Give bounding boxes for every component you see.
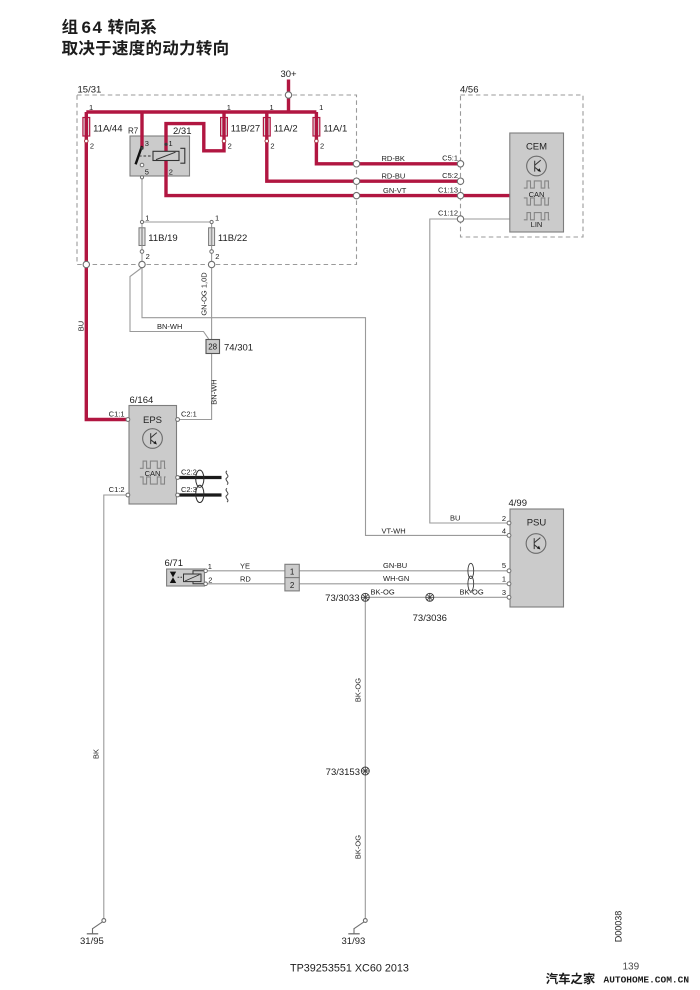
wire red relay pin3 feed [140, 112, 143, 148]
svg-text:11B/22: 11B/22 [218, 233, 247, 244]
wire BN-WH 11B/19 to splice 74/301 [130, 268, 209, 340]
node 30+ connector circle [285, 92, 291, 98]
svg-text:30+: 30+ [280, 69, 297, 80]
svg-text:1: 1 [270, 103, 274, 112]
svg-text:1: 1 [145, 214, 149, 223]
EPS pin C2:2 [176, 467, 197, 479]
svg-text:AUTOHOME.COM.CN: AUTOHOME.COM.CN [604, 975, 690, 986]
EPS pin C2:3 [176, 485, 197, 497]
svg-text:C1:2: C1:2 [109, 485, 125, 494]
svg-text:WH-GN: WH-GN [383, 574, 409, 583]
fuse 11A/44 [83, 103, 123, 151]
footer watermark autohome [546, 973, 689, 986]
fuse 11A/1 [313, 103, 347, 151]
wire YE 6/71 pin1 to inline connector [207, 561, 285, 571]
ECU EPS 6/164 [129, 395, 177, 504]
wire red bus 30+ feed [86, 110, 316, 113]
wire CAN twisted pair EPS C2:3 [180, 488, 228, 502]
svg-text:73/3036: 73/3036 [413, 613, 447, 624]
title line 2 [62, 40, 228, 56]
svg-text:1: 1 [319, 103, 323, 112]
svg-text:RD: RD [240, 574, 251, 583]
wire BN-WH splice 74/301 to EPS C2:1 [179, 354, 219, 420]
svg-text:BK: BK [92, 749, 101, 759]
EPS pin C1:1 [109, 410, 130, 422]
svg-text:5: 5 [145, 167, 149, 176]
wire red RD-BU fuse 11A/2 to C5:2 [267, 141, 461, 181]
ground 31/93 [342, 919, 368, 947]
fuse 11B/22 [209, 228, 248, 261]
PSU pin 4 [502, 526, 511, 537]
PSU pin 2 [502, 514, 511, 525]
svg-text:2: 2 [228, 142, 232, 151]
svg-text:BU: BU [450, 514, 460, 523]
fuse 11A/2 [263, 103, 297, 151]
PSU pin 3 [502, 588, 511, 599]
svg-text:C2:1: C2:1 [181, 410, 197, 419]
pin C1:13 [438, 185, 464, 199]
twisted pair symbol EPS [196, 470, 204, 502]
node 11B/22 through 15/31 border [208, 261, 214, 267]
wire GN-BU connector to PSU pin5 [299, 561, 508, 571]
dashed box 15/31 fuse/relay box [77, 85, 357, 265]
svg-text:11A/1: 11A/1 [323, 124, 347, 135]
svg-text:11B/19: 11B/19 [148, 233, 177, 244]
svg-text:2: 2 [270, 142, 274, 151]
svg-text:BK-OG: BK-OG [354, 678, 363, 702]
svg-text:BN-WH: BN-WH [157, 322, 182, 331]
ECU PSU 4/99 [509, 498, 564, 607]
svg-text:1: 1 [215, 214, 219, 223]
PSU pin 1 [502, 575, 511, 586]
wire WH-GN connector to PSU pin1 [299, 574, 508, 584]
wire BK EPS C1:2 to ground 31/95 [92, 495, 127, 919]
wire BK-OG splice 73/3033 down to ground 31/93 [354, 597, 366, 918]
wire VT-WH 11B/19 to PSU pin4 [142, 268, 508, 536]
svg-text:11A/44: 11A/44 [93, 124, 122, 135]
svg-text:6/164: 6/164 [130, 395, 154, 406]
wire red GN-VT relay pin2 to CEM C1:13 [166, 159, 512, 196]
PSU pin 5 [502, 561, 511, 572]
svg-text:1: 1 [290, 567, 295, 576]
wire fuse 11B/19 tail to connector circle [141, 246, 143, 265]
svg-text:2: 2 [208, 575, 212, 584]
splice 73/3153 [326, 767, 370, 778]
wire C1:12 CEM to PSU pin2 (BU) [430, 219, 512, 523]
svg-text:TP39253551 XC60 2013: TP39253551 XC60 2013 [290, 963, 409, 975]
svg-text:BK-OG: BK-OG [371, 588, 395, 597]
dashed box 4/56 CEM enclosure [460, 85, 583, 238]
wire BK-OG splice 73/3033 to PSU pin3 [365, 588, 508, 598]
svg-text:1: 1 [208, 562, 212, 571]
svg-text:2/31: 2/31 [173, 126, 192, 137]
fuse 11B/27 [221, 103, 261, 151]
svg-text:74/301: 74/301 [224, 343, 253, 354]
pin C5:2 [442, 171, 464, 185]
svg-text:2: 2 [290, 581, 295, 590]
svg-text:2: 2 [215, 252, 219, 261]
svg-text:LIN: LIN [531, 220, 543, 229]
svg-text:2: 2 [169, 167, 173, 176]
node GN-VT 15/31 border [353, 192, 359, 198]
svg-text:1: 1 [169, 139, 173, 148]
footer diagram id D00038 [614, 911, 624, 943]
wire junction row pin1 rail to fuses 11B/19 11B/22 [140, 214, 219, 228]
svg-text:31/93: 31/93 [342, 936, 366, 947]
svg-text:VT-WH: VT-WH [382, 526, 406, 535]
svg-text:15/31: 15/31 [78, 85, 102, 96]
node 30+ supply [280, 69, 297, 112]
svg-text:4/56: 4/56 [460, 85, 479, 96]
footer page number 139 [623, 962, 640, 973]
svg-text:GN-VT: GN-VT [383, 186, 407, 195]
svg-text:5: 5 [502, 561, 506, 570]
node BU through 15/31 border [83, 261, 89, 267]
svg-text:YE: YE [240, 561, 250, 570]
svg-text:6/71: 6/71 [165, 558, 184, 569]
svg-text:RD-BK: RD-BK [382, 154, 405, 163]
wire fuse 11B/22 tail to connector circle [211, 246, 213, 265]
svg-text:C2:2: C2:2 [181, 467, 197, 476]
wire GN-OG 1,0D 11B/22 to splice 74/301 [200, 268, 212, 340]
svg-text:R7: R7 [128, 127, 139, 136]
svg-text:EPS: EPS [143, 415, 162, 426]
svg-text:BU: BU [77, 321, 86, 331]
node RD-BK 15/31 border [353, 161, 359, 167]
wire red fuse 11A/44 to EPS C1:1 (BU) [77, 141, 127, 420]
svg-text:4: 4 [502, 526, 506, 535]
wire red fuse 11B/27 to relay pin1 [166, 124, 224, 152]
svg-text:C1:12: C1:12 [438, 209, 458, 218]
svg-text:BK-OG: BK-OG [460, 588, 484, 597]
svg-text:64: 64 [82, 18, 104, 37]
pin C1:12 [438, 209, 464, 223]
inline connector 1/2 [285, 564, 299, 591]
svg-text:2: 2 [146, 252, 150, 261]
svg-text:C5:1: C5:1 [442, 154, 458, 163]
svg-text:1: 1 [89, 103, 93, 112]
svg-text:28: 28 [208, 343, 217, 352]
svg-text:PSU: PSU [527, 518, 547, 529]
node RD-BU 15/31 border [353, 178, 359, 184]
ECU CEM in 4/56 [510, 133, 564, 232]
relay R7 2/31 [128, 126, 192, 179]
wire RD 6/71 pin2 to inline connector [207, 574, 285, 584]
EPS pin C1:2 [109, 485, 130, 497]
svg-text:2: 2 [502, 514, 506, 523]
svg-text:RD-BU: RD-BU [382, 171, 406, 180]
svg-text:73/3153: 73/3153 [326, 767, 360, 778]
wire relay pin5 down to junction row [141, 177, 143, 222]
svg-text:11B/27: 11B/27 [231, 124, 260, 135]
svg-text:3: 3 [502, 588, 506, 597]
svg-text:4/99: 4/99 [509, 498, 528, 509]
svg-text:D00038: D00038 [614, 911, 624, 943]
ground 31/95 [80, 919, 106, 947]
solenoid valve 6/71 [165, 558, 213, 586]
wire CAN twisted pair EPS C2:2 [180, 471, 228, 485]
svg-text:BN-WH: BN-WH [210, 379, 219, 404]
svg-text:3: 3 [145, 139, 149, 148]
svg-text:139: 139 [623, 962, 640, 973]
svg-text:GN-BU: GN-BU [383, 561, 407, 570]
svg-text:1: 1 [227, 103, 231, 112]
EPS pin C2:1 [176, 410, 197, 422]
svg-text:C2:3: C2:3 [181, 485, 197, 494]
svg-text:C5:2: C5:2 [442, 171, 458, 180]
title line 1 [62, 18, 156, 37]
svg-text:C1:1: C1:1 [109, 410, 125, 419]
svg-text:C1:13: C1:13 [438, 185, 458, 194]
node 11B/19 through 15/31 border [139, 261, 145, 267]
svg-text:GN-OG 1,0D: GN-OG 1,0D [200, 272, 209, 316]
svg-text:2: 2 [90, 142, 94, 151]
wire red RD-BK fuse 11A/1 to C5:1 [316, 141, 460, 164]
svg-text:BK-OG: BK-OG [354, 835, 363, 859]
svg-text:1: 1 [502, 575, 506, 584]
fuse 11B/19 [139, 228, 178, 261]
splice 74/301 pin 28 [206, 340, 253, 354]
splice 73/3036 [413, 593, 447, 624]
twisted pair symbol PSU [468, 563, 474, 591]
splice 73/3033 [325, 593, 369, 604]
svg-text:CEM: CEM [526, 141, 547, 152]
svg-text:2: 2 [320, 142, 324, 151]
footer document number [290, 963, 409, 975]
pin C5:1 [442, 154, 464, 168]
svg-text:31/95: 31/95 [80, 936, 104, 947]
svg-text:11A/2: 11A/2 [274, 124, 298, 135]
svg-text:73/3033: 73/3033 [325, 593, 359, 604]
relay R7 2/31 box background [130, 136, 190, 176]
